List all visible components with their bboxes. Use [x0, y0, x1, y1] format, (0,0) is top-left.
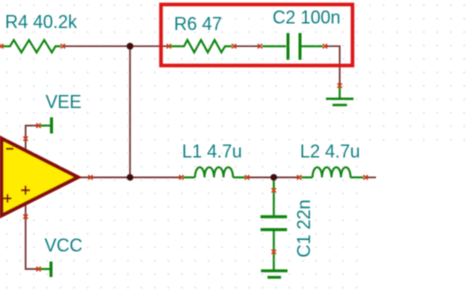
svg-text:VEE: VEE [46, 92, 82, 112]
svg-text:C1 22n: C1 22n [294, 199, 314, 257]
svg-text:C2 100n: C2 100n [273, 8, 341, 28]
svg-text:L2 4.7u: L2 4.7u [300, 142, 360, 162]
svg-text:R6 47: R6 47 [174, 14, 222, 34]
svg-text:R4 40.2k: R4 40.2k [5, 12, 78, 32]
svg-text:L1 4.7u: L1 4.7u [182, 142, 242, 162]
svg-text:VCC: VCC [45, 236, 83, 256]
